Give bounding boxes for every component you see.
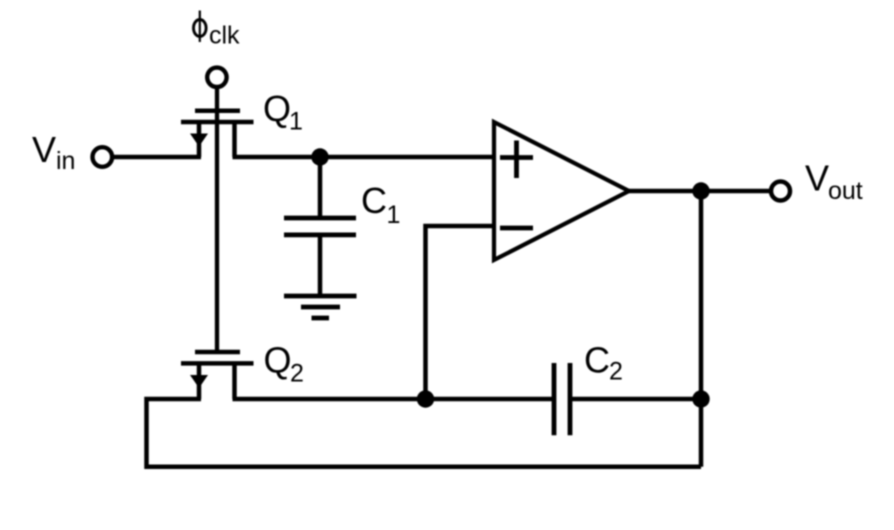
terminal phi_clk — [207, 68, 226, 87]
svg-text:Q: Q — [264, 340, 292, 381]
svg-text:clk: clk — [209, 22, 240, 50]
label phi_clk — [194, 11, 241, 50]
wire Vin to Q1 source — [112, 155, 201, 160]
wire Q2 drain to C2 left — [233, 397, 555, 402]
svg-text:C: C — [584, 340, 610, 381]
wire inverting input feedback — [426, 226, 495, 399]
svg-text:V: V — [805, 158, 829, 199]
wire C2 right to output node — [570, 397, 701, 402]
capacitor C1 — [284, 157, 356, 296]
svg-text:C: C — [361, 180, 387, 221]
wire output feedback vertical — [699, 191, 704, 467]
label C2 — [584, 340, 623, 386]
label Q2 — [264, 340, 304, 388]
svg-text:2: 2 — [290, 360, 304, 388]
capacitor C2 — [554, 363, 570, 435]
transistor Q1 — [181, 111, 254, 157]
svg-text:V: V — [32, 129, 56, 170]
wire op-amp output — [629, 189, 771, 194]
label Q1 — [263, 88, 303, 136]
svg-text:1: 1 — [289, 108, 303, 136]
transistor Q2 — [181, 352, 254, 399]
svg-text:out: out — [828, 177, 863, 205]
svg-text:1: 1 — [387, 201, 401, 229]
terminal Vin — [93, 147, 113, 167]
svg-text:2: 2 — [609, 358, 623, 386]
label C1 — [361, 180, 400, 229]
wire Q1 drain to op-amp noninverting input — [233, 155, 495, 160]
label Vin — [32, 129, 75, 175]
node C (inverting input node) — [417, 390, 434, 407]
wire Q2 source bottom loop — [147, 399, 702, 467]
svg-text:Q: Q — [263, 88, 291, 129]
node D (C2 right node) — [692, 390, 709, 407]
node B (output node) — [692, 182, 709, 199]
op-amp U1 — [494, 122, 629, 260]
wire clock gate (terminal to Q1 gate to Q2 gate) — [215, 87, 219, 352]
ground — [284, 296, 357, 318]
terminal Vout — [771, 182, 790, 201]
svg-text:in: in — [56, 147, 75, 175]
node A (top plate of C1) — [311, 148, 328, 165]
label Vout — [805, 158, 863, 206]
